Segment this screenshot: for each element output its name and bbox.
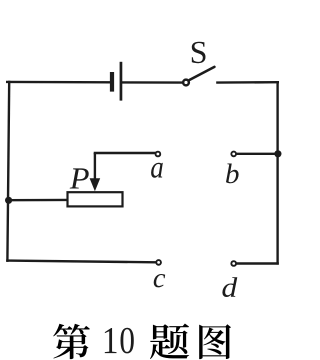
wire bottom horizontal [7,261,155,263]
wire left junction to rheostat [9,199,68,202]
caption char 图 [199,324,231,359]
wire left vertical [7,82,9,261]
rheostat P wiper arm vertical [94,153,96,181]
terminal a circle [156,152,161,157]
wire right vertical [276,82,278,263]
wire switch to top-right corner [217,81,277,84]
label S [192,42,206,64]
switch S lever [190,67,215,80]
wire terminal d to right corner [237,262,278,264]
label c [154,274,165,287]
battery B1 negative plate (short thick) [110,72,114,92]
rheostat P wiper arrowhead [90,178,101,191]
terminal c circle [156,260,161,265]
rheostat P body [68,192,123,206]
label a [151,163,163,178]
junction dot left (rheostat tap) [5,197,12,204]
wire terminal a horizontal [95,152,156,154]
junction dot right (node b tap) [274,150,281,157]
terminal b circle [231,152,236,157]
wire branch to terminal b [237,153,278,155]
battery B1 positive plate (long thin) [120,62,123,101]
switch S pivot circle [183,80,189,86]
terminal d circle [231,261,236,266]
caption digit 1 [105,328,117,353]
label P [70,168,89,188]
label d [222,277,237,297]
label b [226,164,239,184]
caption digit 0 [120,328,133,354]
caption char 题 [150,324,189,360]
caption char 第 [53,324,90,359]
wire top-left horizontal [7,81,110,84]
wire battery to switch [122,81,182,84]
